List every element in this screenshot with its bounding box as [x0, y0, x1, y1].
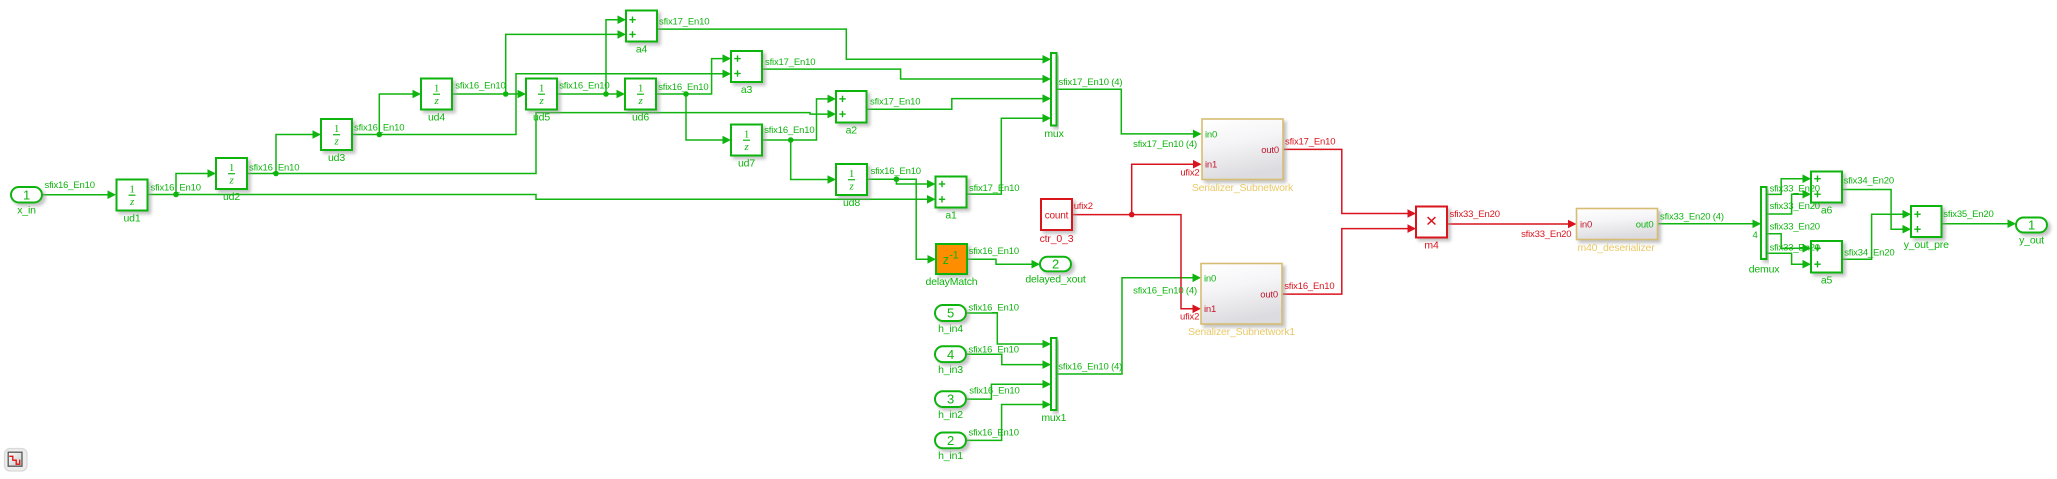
wire ud3 output to a3 in2 [352, 70, 731, 135]
svg-text:sfix17_En10 (4): sfix17_En10 (4) [1059, 77, 1123, 88]
svg-text:Serializer_Subnetwork1: Serializer_Subnetwork1 [1188, 326, 1295, 338]
svg-text:sfix16_En10: sfix16_En10 [45, 180, 95, 191]
svg-text:sfix17_En10: sfix17_En10 [969, 183, 1019, 194]
mux [1044, 53, 1064, 140]
wire mux output to Serializer_Subnetwork in0 [1057, 89, 1202, 138]
unit delay ud7 [731, 125, 762, 170]
svg-text:sfix16_En10: sfix16_En10 [559, 81, 609, 92]
wire demux out3 to a5 in1 [1767, 234, 1812, 253]
svg-text:sfix33_En20 (4): sfix33_En20 (4) [1660, 212, 1724, 223]
svg-text:1: 1 [334, 123, 339, 135]
signal label ufix2 [1180, 312, 1199, 323]
sum a4 [626, 11, 657, 56]
unit delay ud8 [836, 164, 867, 209]
svg-text:demux: demux [1749, 264, 1781, 276]
wire branch to a4 in1 [606, 15, 626, 94]
input port 4 h_in3 [935, 346, 966, 376]
svg-text:4: 4 [947, 347, 954, 362]
signal label sfix16_En10 [871, 166, 921, 177]
svg-text:z: z [228, 175, 234, 187]
svg-text:z: z [333, 136, 339, 148]
signal label sfix17_En10 [765, 57, 815, 68]
signal label sfix16_En10 [969, 246, 1019, 257]
junction on ud1 output [173, 192, 179, 198]
wire Serializer_Subnetwork out0 to m4 in1 [1283, 149, 1416, 217]
svg-text:in0: in0 [1205, 129, 1217, 140]
svg-text:delayMatch: delayMatch [926, 276, 978, 288]
junction on ud8 output [894, 176, 900, 182]
svg-text:x_in: x_in [17, 205, 36, 217]
signal label sfix16_En10 [658, 82, 708, 93]
output port 2 delayed_xout [1025, 257, 1086, 286]
signal label sfix33_En20 (4) [1660, 212, 1724, 223]
svg-text:a5: a5 [1821, 275, 1833, 287]
product m4 [1416, 207, 1447, 252]
svg-text:z: z [637, 95, 643, 107]
wire branch to ud3 [276, 130, 321, 173]
subsystem Serializer_Subnetwork1 [1188, 264, 1295, 339]
wire delayMatch output to delayed_xout [967, 259, 1040, 268]
unit delay ud1 [117, 180, 148, 225]
svg-text:sfix17_En10: sfix17_En10 [765, 57, 815, 68]
signal label sfix16_En10 [969, 303, 1019, 314]
svg-text:1: 1 [849, 168, 854, 180]
signal label sfix16_En10 [969, 386, 1019, 397]
signal label sfix16_En10 [764, 125, 814, 136]
delay match block delayMatch [926, 244, 978, 288]
svg-text:ud2: ud2 [223, 191, 240, 203]
wire count output to Serializer_Subnetwork1 in1 [1072, 215, 1201, 314]
wire ud1 output to a1 in2 [147, 195, 936, 204]
signal label sfix16_En10 [249, 162, 299, 173]
wire x_in to ud1 [42, 190, 116, 199]
signal label sfix16_En10 [455, 81, 505, 92]
mux1 [1041, 338, 1066, 424]
unit delay ud4 [421, 79, 452, 124]
svg-text:z: z [848, 181, 854, 193]
junction on count output [1129, 212, 1135, 218]
svg-text:sfix16_En10: sfix16_En10 [658, 82, 708, 93]
wire branch to ud7 [686, 94, 731, 144]
svg-text:in1: in1 [1204, 304, 1216, 315]
wire branch to ud8 [791, 140, 836, 184]
junction on ud2 output [273, 171, 279, 177]
signal label sfix33_En20 [1521, 229, 1571, 240]
svg-text:sfix16_En10: sfix16_En10 [455, 81, 505, 92]
svg-text:ud7: ud7 [738, 158, 755, 170]
svg-text:sfix16_En10: sfix16_En10 [969, 386, 1019, 397]
wire m40_deserializer output to demux [1658, 220, 1762, 229]
svg-text:a4: a4 [636, 44, 648, 56]
svg-text:sfix33_En20: sfix33_En20 [1770, 201, 1820, 212]
svg-text:a2: a2 [846, 125, 858, 137]
demux [1749, 187, 1781, 276]
svg-text:sfix33_En20: sfix33_En20 [1450, 209, 1500, 220]
svg-text:mux1: mux1 [1041, 412, 1066, 424]
input port 3 h_in2 [935, 391, 966, 421]
wire mux1 output to Serializer_Subnetwork1 in0 [1057, 274, 1202, 375]
svg-text:ud5: ud5 [533, 112, 550, 124]
input port 2 h_in1 [935, 433, 966, 463]
svg-text:ud8: ud8 [843, 197, 860, 209]
signal label ufix2 [1074, 201, 1093, 212]
input port 5 h_in4 [935, 305, 966, 335]
svg-text:sfix16_En10: sfix16_En10 [354, 123, 404, 134]
wire h_in1 to mux1 in4 [966, 400, 1051, 440]
wire branch to ud4 [379, 90, 421, 135]
svg-text:sfix17_En10: sfix17_En10 [659, 17, 709, 28]
svg-text:sfix17_En10 (4): sfix17_En10 (4) [1133, 139, 1197, 150]
sum a3 [731, 51, 762, 96]
svg-text:2: 2 [947, 433, 954, 448]
svg-text:1: 1 [638, 83, 643, 95]
svg-text:sfix34_En20: sfix34_En20 [1844, 175, 1894, 186]
junction on ud7 output [788, 137, 794, 143]
signal label sfix34_En20 [1844, 175, 1894, 186]
svg-text:h_in2: h_in2 [938, 409, 963, 421]
wire ud6 output to a3 in1 [656, 54, 731, 94]
wire ud7 output to a2 in1 [762, 95, 836, 140]
svg-text:z: z [943, 253, 949, 267]
svg-text:sfix16_En10: sfix16_En10 [764, 125, 814, 136]
wire h_in2 to mux1 in3 [966, 380, 1051, 399]
svg-text:sfix16_En10: sfix16_En10 [249, 162, 299, 173]
svg-text:in0: in0 [1204, 274, 1216, 285]
svg-text:z: z [129, 196, 135, 208]
svg-text:sfix34_En20: sfix34_En20 [1844, 248, 1894, 259]
wire ud8 output to delayMatch [867, 179, 936, 263]
junction on ud4 output [503, 91, 509, 97]
svg-text:a1: a1 [945, 210, 957, 222]
svg-text:3: 3 [947, 392, 954, 407]
svg-text:m40_deserializer: m40_deserializer [1577, 242, 1655, 254]
signal label sfix17_En10 (4) [1059, 77, 1123, 88]
svg-text:-1: -1 [949, 249, 958, 261]
svg-text:z: z [433, 95, 439, 107]
wire y_out_pre output to y_out [1942, 219, 2017, 228]
svg-text:in0: in0 [1580, 220, 1592, 231]
signal label sfix33_En20 [1450, 209, 1500, 220]
junction on ud3 output [377, 132, 383, 138]
junction on ud6 output [683, 91, 689, 97]
svg-text:ufix2: ufix2 [1074, 201, 1093, 212]
svg-text:sfix33_En20: sfix33_En20 [1770, 242, 1820, 253]
svg-text:z: z [743, 141, 749, 153]
wire branch to ud2 [176, 169, 216, 194]
signal label sfix16_En10 [151, 183, 201, 194]
svg-text:4: 4 [1752, 230, 1757, 241]
wire a6 output to y_out_pre in2 [1842, 190, 1911, 234]
svg-text:y_out_pre: y_out_pre [1904, 239, 1949, 251]
wire h_in3 to mux1 in2 [966, 354, 1051, 369]
svg-text:ud4: ud4 [428, 112, 445, 124]
svg-text:sfix16_En10 (4): sfix16_En10 (4) [1058, 362, 1122, 373]
svg-text:Serializer_Subnetwork: Serializer_Subnetwork [1192, 182, 1294, 194]
svg-text:1: 1 [744, 129, 749, 141]
unit delay ud2 [216, 158, 247, 203]
signal label sfix33_En20 [1770, 183, 1820, 194]
svg-text:sfix17_En10: sfix17_En10 [870, 96, 920, 107]
svg-text:1: 1 [2028, 218, 2035, 233]
wire branch to Serializer_Subnetwork in1 [1132, 160, 1202, 215]
signal label sfix35_En20 [1943, 209, 1993, 220]
svg-text:sfix16_En10: sfix16_En10 [969, 428, 1019, 439]
svg-text:out0: out0 [1261, 145, 1279, 156]
svg-text:delayed_xout: delayed_xout [1025, 273, 1086, 285]
svg-text:1: 1 [539, 83, 544, 95]
output port 1 y_out [2016, 218, 2047, 247]
svg-text:h_in4: h_in4 [938, 323, 963, 335]
svg-text:count: count [1045, 211, 1069, 222]
svg-text:h_in3: h_in3 [938, 364, 963, 376]
signal label sfix17_En10 [969, 183, 1019, 194]
wire a1 output to mux in4 [967, 114, 1052, 194]
svg-text:sfix16_En10 (4): sfix16_En10 (4) [1133, 286, 1197, 297]
svg-text:sfix16_En10: sfix16_En10 [1284, 281, 1334, 292]
svg-text:ufix2: ufix2 [1180, 168, 1199, 179]
svg-text:m4: m4 [1424, 240, 1439, 252]
svg-text:h_in1: h_in1 [938, 450, 963, 462]
subsystem m40_deserializer [1577, 209, 1658, 255]
counter block ctr_0_3 [1040, 199, 1074, 245]
wire ud2 output to a2 in2 [247, 110, 836, 174]
svg-text:a6: a6 [1821, 205, 1833, 217]
svg-text:out0: out0 [1260, 290, 1278, 301]
svg-text:sfix16_En10: sfix16_En10 [871, 166, 921, 177]
unit delay ud3 [321, 119, 352, 164]
wire Serializer_Subnetwork1 out0 to m4 in2 [1282, 224, 1416, 294]
svg-text:ud1: ud1 [124, 213, 141, 225]
wire demux out2 to a6 in2 [1767, 190, 1812, 214]
svg-text:1: 1 [434, 83, 439, 95]
svg-text:sfix16_En10: sfix16_En10 [151, 183, 201, 194]
signal label sfix16_En10 (4) [1133, 286, 1197, 297]
sample time legend icon [5, 449, 28, 472]
svg-text:sfix33_En20: sfix33_En20 [1770, 183, 1820, 194]
svg-text:ud6: ud6 [632, 112, 649, 124]
wire a4 output to mux in1 [657, 29, 1051, 64]
sum a6 [1811, 172, 1842, 217]
sum a5 [1811, 241, 1842, 287]
unit delay ud6 [625, 79, 656, 124]
svg-text:sfix16_En10: sfix16_En10 [969, 246, 1019, 257]
wire ud4 output to ud5 [452, 90, 526, 99]
svg-text:sfix17_En10: sfix17_En10 [1285, 136, 1335, 147]
wire branch to a4 in2 [506, 30, 626, 94]
svg-text:z: z [538, 95, 544, 107]
svg-text:sfix35_En20: sfix35_En20 [1943, 209, 1993, 220]
subsystem Serializer_Subnetwork [1192, 119, 1294, 194]
signal label sfix17_En10 [659, 17, 709, 28]
svg-text:2: 2 [1052, 257, 1059, 272]
wire a5 output to y_out_pre in1 [1842, 210, 1911, 259]
signal label sfix17_En10 [1285, 136, 1335, 147]
signal label ufix2 [1180, 168, 1199, 179]
signal label sfix16_En10 [969, 428, 1019, 439]
sum a1 [936, 177, 967, 222]
svg-text:mux: mux [1044, 128, 1064, 140]
signal label sfix33_En20 [1770, 201, 1820, 212]
signal label sfix16_En10 [45, 180, 95, 191]
svg-text:sfix33_En20: sfix33_En20 [1521, 229, 1571, 240]
junction on ud5 output [603, 91, 609, 97]
input port 1 x_in [11, 187, 42, 217]
signal label sfix16_En10 (4) [1058, 362, 1122, 373]
sum y_out_pre [1904, 206, 1949, 251]
svg-text:y_out: y_out [2019, 235, 2044, 247]
signal label sfix33_En20 [1770, 242, 1820, 253]
svg-text:sfix33_En20: sfix33_En20 [1770, 222, 1820, 233]
wire demux out4 to a5 in2 [1767, 253, 1812, 268]
svg-text:1: 1 [229, 162, 234, 174]
signal label sfix34_En20 [1844, 248, 1894, 259]
wire branch to a1 in1 [896, 179, 935, 188]
unit delay ud5 [526, 79, 557, 124]
svg-text:sfix16_En10: sfix16_En10 [969, 303, 1019, 314]
svg-text:5: 5 [947, 306, 954, 321]
svg-text:ud3: ud3 [328, 152, 345, 164]
wire demux out1 to a6 in1 [1767, 174, 1812, 194]
signal label sfix33_En20 [1770, 222, 1820, 233]
svg-text:a3: a3 [741, 84, 753, 96]
svg-text:1: 1 [129, 184, 134, 196]
wire m4 output to m40_deserializer in0 [1447, 220, 1577, 229]
svg-text:ctr_0_3: ctr_0_3 [1040, 233, 1074, 245]
signal label sfix16_En10 [969, 344, 1019, 355]
wire a2 output to mux in3 [867, 94, 1052, 109]
wire a3 output to mux in2 [762, 69, 1051, 83]
signal label sfix17_En10 (4) [1133, 139, 1197, 150]
wire h_in4 to mux1 in1 [966, 313, 1051, 348]
svg-text:1: 1 [23, 187, 30, 202]
svg-text:ufix2: ufix2 [1180, 312, 1199, 323]
svg-text:in1: in1 [1205, 160, 1217, 171]
signal label sfix17_En10 [870, 96, 920, 107]
signal label sfix16_En10 [559, 81, 609, 92]
signal label 4 [1752, 230, 1757, 241]
signal label sfix16_En10 [354, 123, 404, 134]
svg-text:sfix16_En10: sfix16_En10 [969, 344, 1019, 355]
sum a2 [836, 91, 867, 137]
signal label sfix16_En10 [1284, 281, 1334, 292]
wire ud5 output to ud6 [557, 90, 625, 99]
svg-text:out0: out0 [1636, 220, 1654, 231]
